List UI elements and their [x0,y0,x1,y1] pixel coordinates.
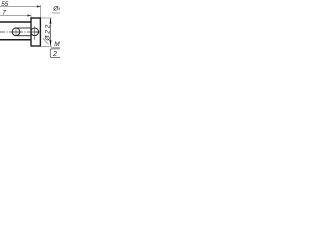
part outline: main body bottom [0,39,31,41]
part outline: flange bottom [31,45,42,47]
slot left end circle [12,28,20,36]
balloon box [50,49,62,58]
vertical dimension line [50,18,52,46]
arrowhead 7 right [27,14,31,16]
slot upper tangent line [15,27,31,29]
svg-text:55: 55 [1,1,9,8]
vertical dimension extension bottom [41,45,52,47]
part outline: flange top [31,17,42,19]
arrowhead 55 right [37,5,41,7]
dimension line 55 [0,6,40,8]
thread label shelf [51,47,60,49]
vertical dim arrow top [50,18,52,24]
part outline: right face [39,17,41,46]
thread leader diagonal [43,39,49,45]
dimension line 7 [0,15,31,17]
slot lower tangent line [17,35,31,37]
slot right end circle [31,28,39,36]
vertical dimension extension top [42,17,52,19]
slot right circle vertical center line [34,26,36,40]
extension line right face [40,5,42,18]
svg-text:2: 2 [52,51,57,58]
center line (axis) [0,31,43,33]
top right label shelf [52,12,60,14]
centre dash through right circle [31,31,38,33]
svg-text:Ø22: Ø22 [45,23,52,42]
extension line step [30,15,32,18]
vertical dim arrow bottom [50,40,52,46]
part outline: flange left face [30,17,32,46]
part outline: main body top [0,21,31,23]
slot left circle vertical center line [15,27,17,36]
svg-text:Ø4: Ø4 [52,6,60,13]
centre dash through left circle [13,31,20,33]
svg-text:M: M [54,41,60,48]
